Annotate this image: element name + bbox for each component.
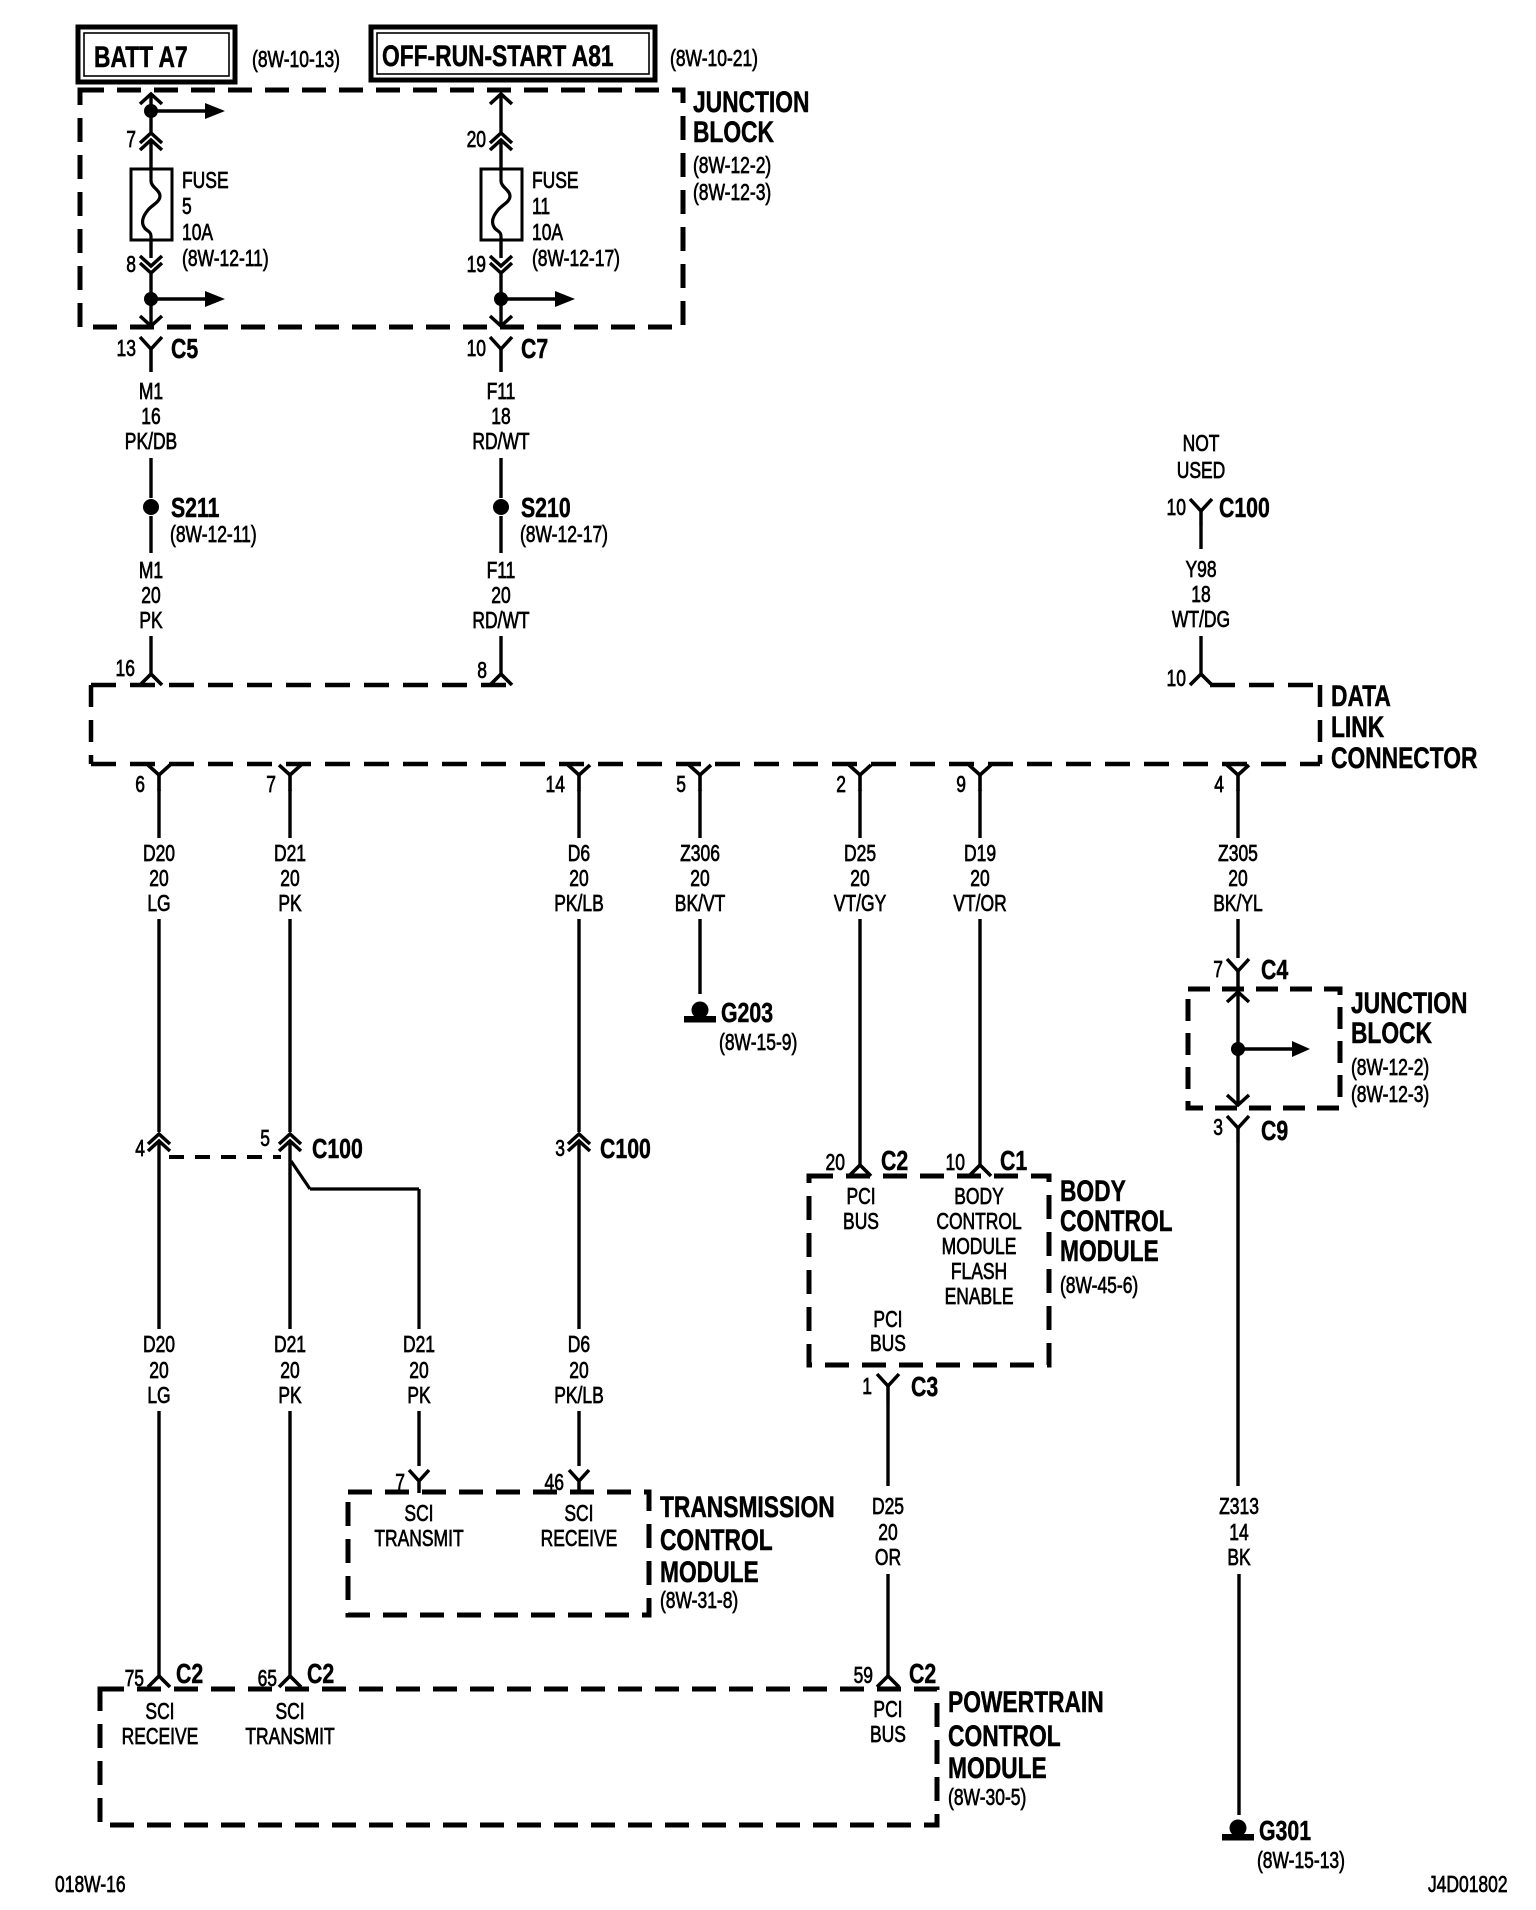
svg-text:BODY: BODY — [1060, 1174, 1126, 1208]
svg-text:SCI: SCI — [564, 1502, 593, 1527]
svg-text:CONTROL: CONTROL — [936, 1210, 1021, 1235]
svg-text:BK/VT: BK/VT — [675, 892, 725, 917]
svg-text:10: 10 — [467, 337, 486, 362]
svg-text:LG: LG — [147, 1384, 170, 1409]
pin 65 label — [258, 1667, 277, 1692]
wire below fuse 11 — [499, 240, 502, 326]
svg-text:C3: C3 — [911, 1371, 938, 1403]
wire D21 branch to TCM — [417, 1411, 420, 1466]
wire D25 upper segment — [858, 790, 861, 838]
svg-text:16: 16 — [116, 657, 135, 682]
node splice dot with feed arrow 3 — [494, 291, 575, 307]
svg-text:Z306: Z306 — [680, 842, 720, 867]
svg-text:Y98: Y98 — [1185, 558, 1216, 583]
connector C5 — [140, 333, 198, 372]
svg-text:3: 3 — [555, 1137, 565, 1162]
svg-text:20: 20 — [970, 867, 989, 892]
connector C2 pin 59 into PCM — [877, 1658, 936, 1690]
connector C4 — [1227, 954, 1288, 990]
wire D21 mid — [288, 919, 291, 1132]
svg-text:PCI: PCI — [873, 1698, 902, 1723]
svg-text:3: 3 — [1213, 1116, 1223, 1141]
BCM pin function PCI BUS — [843, 1185, 879, 1235]
svg-text:(8W-31-8): (8W-31-8) — [660, 1589, 738, 1614]
svg-text:20: 20 — [878, 1521, 897, 1546]
wire label F11 18 RD/WT — [472, 380, 529, 455]
wire Z306 upper segment — [698, 790, 701, 838]
svg-text:D21: D21 — [274, 1333, 306, 1358]
svg-text:14: 14 — [546, 773, 565, 798]
wire label D21 20 PK — [274, 842, 306, 917]
svg-text:D21: D21 — [403, 1333, 435, 1358]
svg-text:10: 10 — [1167, 496, 1186, 521]
svg-text:M1: M1 — [139, 380, 163, 405]
svg-text:(8W-12-11): (8W-12-11) — [182, 247, 269, 272]
wire Y98 upper — [1199, 526, 1202, 549]
power feed box OFF-RUN-START A81 — [371, 27, 655, 80]
pin 1 label C3 — [862, 1375, 872, 1400]
node splice dot with feed arrow 2 — [144, 291, 225, 307]
svg-text:PK: PK — [139, 609, 163, 634]
svg-text:8: 8 — [126, 253, 136, 278]
svg-text:20: 20 — [149, 1359, 168, 1384]
svg-text:11: 11 — [532, 195, 550, 220]
svg-text:10: 10 — [1167, 667, 1186, 692]
svg-text:DATA: DATA — [1331, 679, 1391, 713]
powertrain control module dashed box — [100, 1689, 937, 1825]
svg-text:20: 20 — [141, 584, 160, 609]
junction block dashed box — [80, 90, 683, 327]
connector pin 4 out of data link connector — [1214, 765, 1249, 798]
connector C100 not used — [1190, 492, 1270, 526]
svg-text:C2: C2 — [881, 1145, 908, 1177]
connector pin 6 out of data link connector — [135, 765, 170, 798]
wire D6 to TCM — [577, 1411, 580, 1466]
PCM pin function SCI RECEIVE — [122, 1700, 199, 1750]
svg-text:(8W-10-21): (8W-10-21) — [670, 47, 758, 72]
svg-text:BODY: BODY — [954, 1185, 1004, 1210]
wire D25 from BCM — [886, 1401, 889, 1486]
body control module dashed box — [809, 1176, 1049, 1365]
svg-text:CONTROL: CONTROL — [1060, 1204, 1173, 1238]
transmission control module dashed box — [348, 1492, 649, 1615]
svg-text:D21: D21 — [274, 842, 306, 867]
wire batt feed upper — [149, 94, 152, 132]
svg-text:OFF-RUN-START A81: OFF-RUN-START A81 — [382, 39, 614, 73]
svg-text:C100: C100 — [312, 1133, 363, 1165]
sheet number 018W-16 — [55, 1873, 126, 1898]
svg-text:ENABLE: ENABLE — [945, 1285, 1014, 1310]
connector C2 pin 75 into PCM — [148, 1658, 203, 1690]
svg-text:C9: C9 — [1261, 1115, 1288, 1147]
connector chevrons pin 5 C100 — [279, 1133, 363, 1165]
pin 20 label BCM — [826, 1151, 845, 1176]
node splice dot with feed arrow — [144, 103, 225, 119]
svg-text:MODULE: MODULE — [1060, 1234, 1159, 1268]
powertrain control module label — [948, 1685, 1104, 1811]
pin 10 label BCM — [946, 1151, 965, 1176]
svg-text:2: 2 — [836, 773, 846, 798]
splice S210 — [493, 492, 571, 524]
svg-text:20: 20 — [569, 867, 588, 892]
pin 75 label — [125, 1667, 144, 1692]
pin 19 label — [467, 253, 486, 278]
junction block 2 label — [1351, 986, 1467, 1108]
wire D20 to PCM — [157, 1411, 160, 1677]
svg-text:5: 5 — [676, 773, 686, 798]
connector pin 2 out of data link connector — [836, 765, 871, 798]
svg-text:20: 20 — [690, 867, 709, 892]
svg-text:Z305: Z305 — [1218, 842, 1258, 867]
wire F11 upper — [499, 458, 502, 498]
svg-text:16: 16 — [141, 405, 160, 430]
connector pin 7 into TCM — [409, 1470, 429, 1493]
svg-text:D19: D19 — [964, 842, 996, 867]
data link connector dashed box — [91, 685, 1320, 764]
svg-text:C7: C7 — [521, 333, 548, 365]
connector chevrons pin 3 C100 — [568, 1133, 651, 1165]
BCM pin function flash enable — [936, 1185, 1021, 1310]
svg-text:C100: C100 — [1219, 492, 1270, 524]
svg-text:FUSE: FUSE — [532, 169, 579, 194]
svg-text:VT/GY: VT/GY — [834, 892, 887, 917]
connector pin 46 into TCM — [569, 1470, 589, 1493]
svg-text:D6: D6 — [568, 842, 590, 867]
wire into fuse 5 — [149, 141, 152, 169]
wire Z305 upper segment — [1236, 790, 1239, 838]
pin 59 label — [854, 1664, 873, 1689]
svg-text:BATT A7: BATT A7 — [94, 40, 188, 74]
wire M1 upper — [149, 458, 152, 498]
connector pin 14 out of data link connector — [546, 765, 590, 798]
svg-text:6: 6 — [135, 773, 145, 798]
svg-text:LG: LG — [147, 892, 170, 917]
wire label D6 20 PK/LB — [554, 842, 604, 917]
svg-text:G301: G301 — [1259, 1815, 1311, 1847]
pin 8 label — [126, 253, 136, 278]
svg-text:C4: C4 — [1261, 954, 1288, 986]
connector chevrons pin 19 — [490, 256, 512, 273]
svg-text:FLASH: FLASH — [951, 1260, 1007, 1285]
wire label D20 20 LG — [143, 842, 175, 917]
ground G203 — [684, 997, 773, 1029]
svg-text:PK/LB: PK/LB — [554, 1384, 604, 1409]
pin 10 label dlc — [1167, 667, 1186, 692]
wire D20 upper segment — [157, 790, 160, 838]
wire label D25 20 VT/GY — [834, 842, 887, 917]
svg-text:D25: D25 — [872, 1495, 904, 1520]
wire label D6 20 PK/LB lower — [554, 1333, 604, 1409]
svg-text:19: 19 — [467, 253, 486, 278]
arrowhead down at junction block edge — [140, 316, 162, 326]
svg-text:13: 13 — [117, 337, 136, 362]
svg-text:PCI: PCI — [846, 1185, 875, 1210]
connector chevrons pin 8 — [140, 256, 162, 273]
svg-text:OR: OR — [875, 1546, 901, 1571]
label NOT USED — [1177, 432, 1226, 484]
svg-text:TRANSMIT: TRANSMIT — [245, 1725, 334, 1750]
wire D20 lower — [157, 1142, 160, 1329]
pin 3 label C9 — [1213, 1116, 1223, 1141]
arrowhead down at junction block edge 2 — [490, 316, 512, 326]
svg-text:Z313: Z313 — [1219, 1495, 1259, 1520]
svg-text:(8W-12-3): (8W-12-3) — [693, 181, 771, 206]
connector C2 pin 65 into PCM — [279, 1658, 334, 1690]
fuse 11 10A — [481, 169, 522, 240]
svg-text:C100: C100 — [600, 1133, 651, 1165]
pin 7 label — [126, 128, 136, 153]
pin 7 label C4 — [1213, 958, 1223, 983]
svg-text:20: 20 — [467, 128, 486, 153]
svg-text:(8W-45-6): (8W-45-6) — [1060, 1274, 1138, 1299]
wire label M1 16 PK/DB — [125, 380, 177, 455]
svg-text:SCI: SCI — [145, 1700, 174, 1725]
svg-text:POWERTRAIN: POWERTRAIN — [948, 1685, 1104, 1719]
pin 10 label — [467, 337, 486, 362]
wire into fuse 11 — [499, 141, 502, 169]
fuse 5 10A — [131, 169, 172, 240]
arrowhead up to BATT A7 — [140, 94, 162, 104]
wire F11 below splice — [499, 516, 502, 553]
svg-text:14: 14 — [1229, 1521, 1248, 1546]
pin 10 label C100 — [1167, 496, 1186, 521]
body control module label — [1060, 1174, 1173, 1299]
svg-text:D25: D25 — [844, 842, 876, 867]
junction block 2 dashed box — [1188, 989, 1340, 1108]
svg-text:RECEIVE: RECEIVE — [122, 1725, 199, 1750]
svg-text:C1: C1 — [1000, 1145, 1027, 1177]
svg-text:SCI: SCI — [275, 1700, 304, 1725]
arrowhead up to OFF-RUN-START A81 — [490, 94, 512, 104]
svg-text:20: 20 — [491, 584, 510, 609]
reference (8W-12-11) at S211 — [170, 523, 257, 548]
wire below fuse 5 — [149, 240, 152, 326]
power feed box BATT A7 — [78, 27, 235, 82]
svg-text:PCI: PCI — [873, 1308, 902, 1333]
svg-text:(8W-12-2): (8W-12-2) — [1351, 1056, 1429, 1081]
wire D21 upper segment — [288, 790, 291, 838]
svg-text:C2: C2 — [176, 1658, 203, 1690]
svg-text:5: 5 — [182, 195, 192, 220]
svg-text:20: 20 — [149, 867, 168, 892]
svg-text:D20: D20 — [143, 1333, 175, 1358]
arrowhead up inside junction block — [1227, 992, 1249, 1002]
wire label Y98 18 WT/DG — [1172, 558, 1230, 633]
wire Y98 lower — [1199, 636, 1202, 675]
svg-text:BK: BK — [1227, 1546, 1251, 1571]
connector pin 7 out of data link connector — [266, 765, 301, 798]
svg-text:BLOCK: BLOCK — [1351, 1016, 1432, 1050]
fuse 11 value labels — [532, 169, 620, 272]
svg-text:10A: 10A — [532, 221, 563, 246]
svg-text:(8W-15-13): (8W-15-13) — [1257, 1849, 1345, 1874]
wire label Z305 20 BK/YL — [1213, 842, 1263, 917]
svg-text:(8W-30-5): (8W-30-5) — [948, 1786, 1026, 1811]
junction block label — [693, 85, 809, 206]
svg-text:CONTROL: CONTROL — [948, 1719, 1061, 1753]
wire label Z313 14 BK — [1219, 1495, 1259, 1571]
fuse 5 value labels — [182, 169, 269, 272]
wire M1 lower — [149, 636, 152, 674]
svg-text:MODULE: MODULE — [942, 1235, 1017, 1260]
svg-text:RECEIVE: RECEIVE — [541, 1527, 618, 1552]
pin 46 label TCM — [545, 1471, 564, 1496]
wire D19 into BCM — [978, 919, 981, 1166]
pin 7 label TCM — [395, 1471, 405, 1496]
svg-text:F11: F11 — [487, 380, 516, 405]
svg-text:9: 9 — [956, 773, 966, 798]
svg-text:BUS: BUS — [870, 1723, 906, 1748]
svg-text:4: 4 — [135, 1137, 145, 1162]
svg-text:M1: M1 — [139, 559, 163, 584]
wire D21 to PCM — [288, 1411, 291, 1677]
branch wire D21 to TCM — [291, 1161, 419, 1329]
svg-text:59: 59 — [854, 1664, 873, 1689]
wire D25 to PCM — [886, 1574, 889, 1677]
connector C3 — [877, 1371, 938, 1403]
wire Z313 lower — [1237, 1574, 1240, 1815]
svg-text:PK: PK — [278, 892, 302, 917]
svg-text:BUS: BUS — [843, 1210, 879, 1235]
arrowhead down inside junction block — [1227, 1095, 1249, 1105]
svg-text:1: 1 — [862, 1375, 872, 1400]
node dot with feed arrow junction block — [1231, 1041, 1310, 1057]
wire ign feed upper — [499, 94, 502, 132]
svg-text:PK: PK — [407, 1384, 431, 1409]
svg-text:(8W-15-9): (8W-15-9) — [719, 1031, 797, 1056]
svg-text:D6: D6 — [568, 1333, 590, 1358]
pin 20 label — [467, 128, 486, 153]
pin 3 label C100 — [555, 1137, 565, 1162]
wire through junction block — [1236, 992, 1239, 1105]
connector chevrons pin 4 C100 — [148, 1134, 170, 1151]
svg-text:7: 7 — [126, 128, 136, 153]
svg-text:VT/OR: VT/OR — [953, 892, 1006, 917]
svg-text:(8W-12-2): (8W-12-2) — [693, 154, 771, 179]
svg-text:(8W-12-17): (8W-12-17) — [520, 523, 608, 548]
BCM pin function PCI BUS lower — [870, 1308, 906, 1357]
connector pin 16 into data link connector — [140, 674, 162, 685]
svg-text:20: 20 — [280, 1359, 299, 1384]
connector C9 — [1227, 1115, 1288, 1147]
wire M1 below splice — [149, 516, 152, 553]
svg-text:BK/YL: BK/YL — [1213, 892, 1263, 917]
dashed connector line C100 — [169, 1155, 281, 1159]
svg-text:MODULE: MODULE — [660, 1555, 759, 1589]
svg-text:J4D01802: J4D01802 — [1428, 1873, 1508, 1898]
reference (8W-12-17) at S210 — [520, 523, 608, 548]
svg-text:7: 7 — [266, 773, 276, 798]
wire D6 lower — [577, 1142, 580, 1329]
reference (8W-15-9) — [719, 1031, 797, 1056]
svg-text:D20: D20 — [143, 842, 175, 867]
pin 5 label C100 — [260, 1127, 270, 1152]
drawing number J4D01802 — [1428, 1873, 1508, 1898]
wire D6 upper segment — [577, 790, 580, 838]
pin 8 label dlc — [477, 659, 487, 684]
svg-text:CONNECTOR: CONNECTOR — [1331, 741, 1477, 775]
transmission control module label — [660, 1490, 835, 1614]
pin 16 label — [116, 657, 135, 682]
svg-text:PK/LB: PK/LB — [554, 892, 604, 917]
wire D25 into BCM — [858, 919, 861, 1166]
PCM pin function SCI TRANSMIT — [245, 1700, 334, 1750]
connector chevrons pin 7 — [140, 133, 162, 150]
svg-text:PK: PK — [278, 1384, 302, 1409]
svg-text:PK/DB: PK/DB — [125, 430, 177, 455]
wire label D21 20 PK branch — [403, 1333, 435, 1409]
connector C2 pin 20 into BCM — [849, 1145, 908, 1177]
connector pin 5 out of data link connector — [676, 765, 711, 798]
svg-text:TRANSMIT: TRANSMIT — [374, 1527, 463, 1552]
svg-text:018W-16: 018W-16 — [55, 1873, 126, 1898]
svg-text:FUSE: FUSE — [182, 169, 229, 194]
svg-text:(8W-10-13): (8W-10-13) — [252, 48, 340, 73]
wire Z306 to ground — [698, 919, 701, 994]
connector C1 pin 10 into BCM — [969, 1145, 1027, 1177]
PCM pin function PCI BUS — [870, 1698, 906, 1748]
data link connector label — [1331, 679, 1477, 775]
reference (8W-10-13) — [252, 48, 340, 73]
svg-text:8: 8 — [477, 659, 487, 684]
wire label F11 20 RD/WT — [472, 559, 529, 634]
svg-text:20: 20 — [1228, 867, 1247, 892]
wire label Z306 20 BK/VT — [675, 842, 725, 917]
svg-text:(8W-12-17): (8W-12-17) — [532, 247, 620, 272]
wire label D21 20 PK lower — [274, 1333, 306, 1409]
TCM pin function SCI TRANSMIT — [374, 1502, 463, 1552]
svg-text:(8W-12-11): (8W-12-11) — [170, 523, 257, 548]
wire label D20 20 LG lower — [143, 1333, 175, 1409]
svg-text:RD/WT: RD/WT — [472, 430, 529, 455]
svg-text:18: 18 — [1191, 583, 1210, 608]
svg-text:C5: C5 — [171, 333, 198, 365]
svg-text:MODULE: MODULE — [948, 1751, 1047, 1785]
wire D21 lower — [288, 1142, 291, 1329]
pin 13 label — [117, 337, 136, 362]
svg-text:BLOCK: BLOCK — [693, 115, 774, 149]
svg-text:NOT: NOT — [1183, 432, 1220, 457]
wire Z313 upper — [1236, 1143, 1239, 1486]
svg-text:CONTROL: CONTROL — [660, 1523, 773, 1557]
reference (8W-15-13) — [1257, 1849, 1345, 1874]
connector C7 — [490, 333, 548, 372]
svg-text:20: 20 — [280, 867, 299, 892]
splice S211 — [143, 492, 220, 524]
svg-text:5: 5 — [260, 1127, 270, 1152]
svg-text:20: 20 — [569, 1359, 588, 1384]
wire label D25 20 OR — [872, 1495, 904, 1571]
svg-text:S211: S211 — [171, 492, 220, 524]
wire D19 upper segment — [978, 790, 981, 838]
svg-text:20: 20 — [409, 1359, 428, 1384]
svg-text:USED: USED — [1177, 459, 1226, 484]
svg-text:C2: C2 — [909, 1658, 936, 1690]
svg-text:18: 18 — [491, 405, 510, 430]
svg-text:LINK: LINK — [1331, 710, 1384, 744]
svg-text:10A: 10A — [182, 221, 213, 246]
svg-text:JUNCTION: JUNCTION — [1351, 986, 1467, 1020]
ground G301 — [1222, 1815, 1311, 1847]
wire label D19 20 VT/OR — [953, 842, 1006, 917]
svg-text:F11: F11 — [487, 559, 516, 584]
svg-text:TRANSMISSION: TRANSMISSION — [660, 1490, 835, 1524]
wire D20 mid — [157, 919, 160, 1132]
wire D6 mid — [577, 919, 580, 1132]
svg-text:S210: S210 — [521, 492, 571, 524]
TCM pin function SCI RECEIVE — [541, 1502, 618, 1552]
wire F11 lower — [499, 636, 502, 674]
